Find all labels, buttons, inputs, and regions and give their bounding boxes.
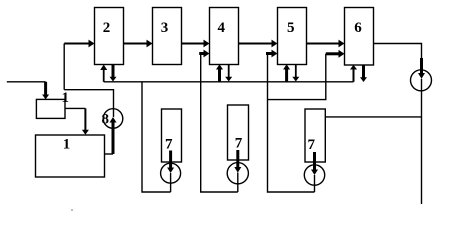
wire pump 7c outlet [314,175,316,192]
svg-text:4: 4 [218,20,226,36]
pump 7c down arrow [313,152,316,170]
wire pump 7a outlet [170,173,172,192]
column 7b box [228,105,249,160]
svg-text:6: 6 [354,20,362,36]
svg-text:3: 3 [161,20,169,36]
arrow box 3 to box 4 [182,43,206,45]
arrow into box 2 [64,43,90,45]
column 7c box [305,109,325,162]
svg-text:7: 7 [165,137,173,153]
box 1 [36,135,105,177]
wire riser to pump 8 [64,90,113,117]
svg-text:2: 2 [103,20,111,36]
wire box 6 output [374,44,422,60]
enclosure 1 left wire [142,82,171,192]
arrow into small tank [44,82,47,95]
pump 7a down arrow [169,151,172,169]
box 6 [345,8,374,66]
thick up arrow into box 5 bottom [285,69,288,82]
up arrow into box 2 bottom [103,67,105,82]
arrow box 5 to box 6 [307,43,341,45]
svg-text:7: 7 [235,135,243,151]
wire small tank to drop arrow [65,107,85,109]
column 7a box [162,109,182,162]
thick side arrow into box 4 [199,52,205,55]
riser wire for box 6 side feed [268,54,326,100]
pump 7c circle [304,165,324,185]
recycle bus wire [104,81,354,83]
svg-text:7: 7 [307,137,315,153]
thick side arrow into box 5 [266,52,273,55]
svg-text:5: 5 [287,20,295,36]
arrow box 2 to box 3 [124,43,149,45]
wire right pump outlet [421,79,423,204]
svg-text:8: 8 [102,112,110,128]
pump 7a circle [161,163,181,183]
thick down arrow into right pump [420,58,423,74]
pump 8 up arrow [110,117,117,123]
stray dot [71,209,73,211]
enclosure 3 left wire [268,54,315,193]
enclosure 2 left wire [201,54,238,193]
riser wire to box 2 input [63,44,65,90]
right pump circle [411,70,432,91]
box 4 [210,8,239,65]
arrow box 4 to box 5 [239,43,274,45]
wire column 7c side outlet [325,116,421,118]
svg-text:1: 1 [63,137,71,153]
thick down arrow from box 6 [362,65,365,78]
wire pump 8 to box 1 [105,153,114,155]
arrow into box 1 [84,108,86,130]
thick down arrow from box 2 [112,65,115,78]
pump 8 circle [103,109,123,129]
thick up arrow into box 4 bottom [218,69,221,82]
pump 7b down arrow [236,150,239,168]
box 2 [95,8,124,65]
down arrow from box 5 [295,64,297,77]
wire pump 7b outlet [237,173,239,192]
pump 7b circle [227,163,248,184]
wire feed input [7,81,46,83]
box 5 [278,8,307,65]
thick side arrow into box 6 [326,52,340,55]
small tank box [36,99,65,118]
box 3 [153,8,182,65]
svg-text:1: 1 [62,90,70,106]
down arrow from box 4 [228,64,230,77]
up arrow into box 6 bottom [353,69,355,82]
